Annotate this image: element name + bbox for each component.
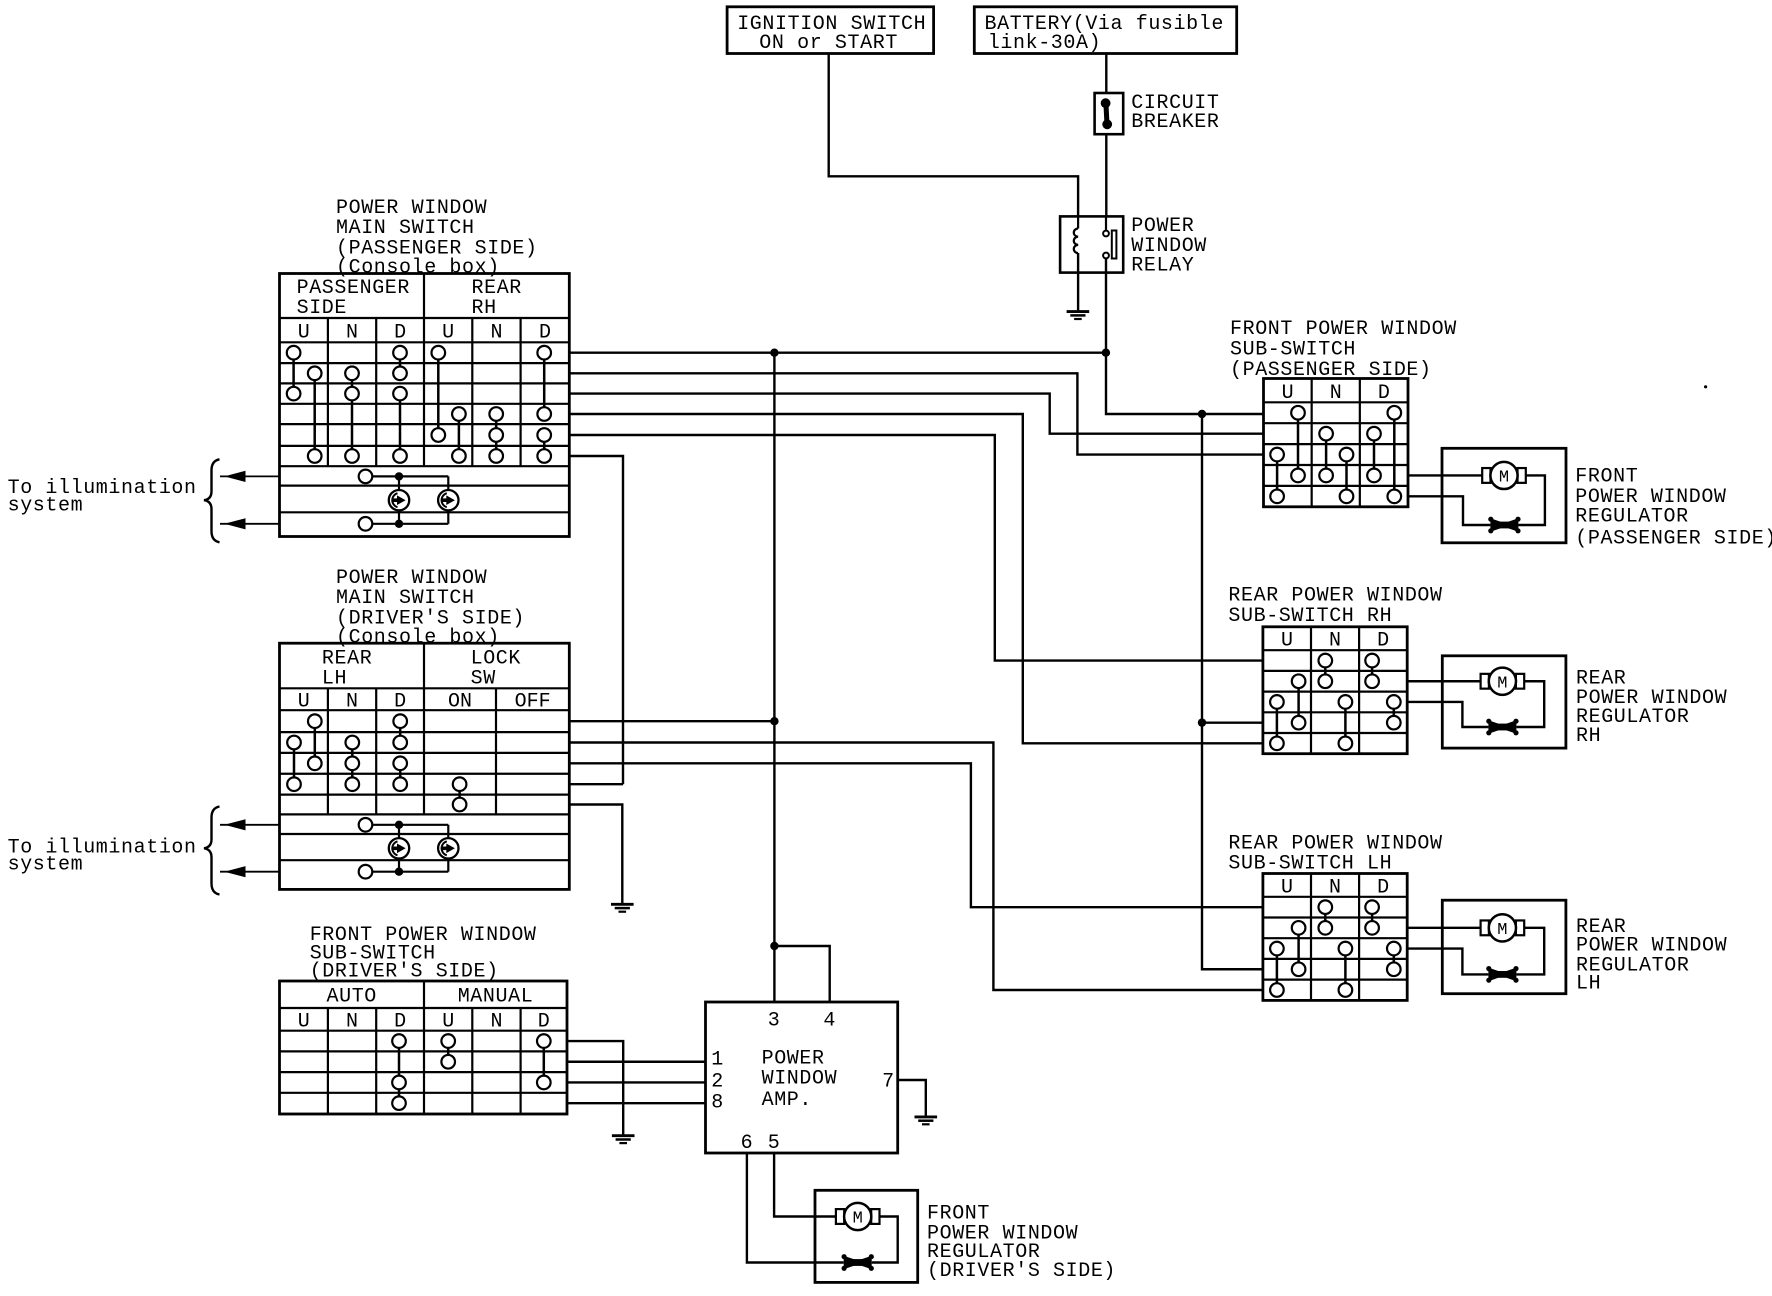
svg-text:AMP.: AMP.	[762, 1089, 812, 1112]
svg-text:WINDOW: WINDOW	[762, 1068, 838, 1091]
svg-text:LH: LH	[1576, 973, 1601, 996]
svg-text:(PASSENGER SIDE): (PASSENGER SIDE)	[1230, 359, 1432, 382]
svg-text:SIDE: SIDE	[297, 297, 347, 320]
svg-text:M: M	[1499, 469, 1509, 488]
svg-text:M: M	[1497, 674, 1507, 693]
svg-text:U: U	[298, 322, 310, 345]
svg-text:(Console box): (Console box)	[336, 627, 500, 650]
svg-text:ON or START: ON or START	[759, 32, 898, 55]
svg-text:SW: SW	[471, 668, 496, 691]
svg-text:D: D	[1377, 876, 1389, 899]
svg-text:7: 7	[882, 1071, 895, 1094]
svg-text:1: 1	[711, 1049, 724, 1072]
svg-text:U: U	[1281, 630, 1293, 653]
svg-text:MANUAL: MANUAL	[458, 986, 534, 1009]
svg-text:system: system	[8, 854, 84, 877]
svg-text:REGULATOR: REGULATOR	[1575, 506, 1688, 529]
svg-text:M: M	[1497, 921, 1507, 940]
svg-text:D: D	[394, 691, 406, 714]
svg-text:2: 2	[711, 1071, 724, 1094]
svg-text:D: D	[1378, 382, 1390, 405]
svg-text:AUTO: AUTO	[326, 986, 376, 1009]
svg-text:OFF: OFF	[515, 691, 551, 714]
svg-text:N: N	[346, 322, 358, 345]
svg-text:8: 8	[711, 1092, 724, 1115]
svg-text:ON: ON	[448, 691, 472, 714]
svg-text:6: 6	[741, 1132, 754, 1155]
svg-text:RH: RH	[1576, 725, 1601, 748]
svg-text:BREAKER: BREAKER	[1131, 111, 1219, 134]
svg-text:link-30A): link-30A)	[988, 32, 1101, 55]
svg-text:LH: LH	[322, 668, 347, 691]
svg-text:U: U	[442, 1011, 454, 1034]
svg-text:N: N	[346, 1011, 358, 1034]
svg-text:(DRIVER'S SIDE): (DRIVER'S SIDE)	[927, 1260, 1116, 1283]
svg-text:(DRIVER'S SIDE): (DRIVER'S SIDE)	[310, 961, 499, 984]
svg-text:N: N	[490, 322, 502, 345]
svg-text:D: D	[538, 1011, 550, 1034]
svg-text:3: 3	[768, 1009, 781, 1032]
svg-text:RELAY: RELAY	[1131, 255, 1194, 278]
svg-text:U: U	[298, 1011, 310, 1034]
svg-text:M: M	[853, 1210, 863, 1229]
svg-text:4: 4	[823, 1009, 836, 1032]
svg-text:U: U	[1281, 876, 1293, 899]
svg-text:U: U	[1282, 382, 1294, 405]
svg-text:RH: RH	[472, 297, 497, 320]
svg-text:U: U	[442, 322, 454, 345]
svg-text:N: N	[490, 1011, 502, 1034]
svg-text:D: D	[394, 322, 406, 345]
svg-text:5: 5	[768, 1132, 781, 1155]
svg-text:D: D	[539, 322, 551, 345]
svg-text:SUB-SWITCH LH: SUB-SWITCH LH	[1228, 852, 1392, 875]
svg-text:D: D	[1377, 630, 1389, 653]
svg-text:SUB-SWITCH RH: SUB-SWITCH RH	[1228, 605, 1392, 628]
svg-text:N: N	[346, 691, 358, 714]
svg-text:U: U	[298, 691, 310, 714]
svg-text:SUB-SWITCH: SUB-SWITCH	[1230, 338, 1356, 361]
svg-text:system: system	[8, 494, 84, 517]
svg-text:(PASSENGER SIDE): (PASSENGER SIDE)	[1575, 528, 1772, 551]
svg-text:(Console box): (Console box)	[336, 257, 500, 280]
svg-text:D: D	[394, 1011, 406, 1034]
svg-text:N: N	[1329, 876, 1341, 899]
svg-text:N: N	[1329, 630, 1341, 653]
svg-text:N: N	[1330, 382, 1342, 405]
